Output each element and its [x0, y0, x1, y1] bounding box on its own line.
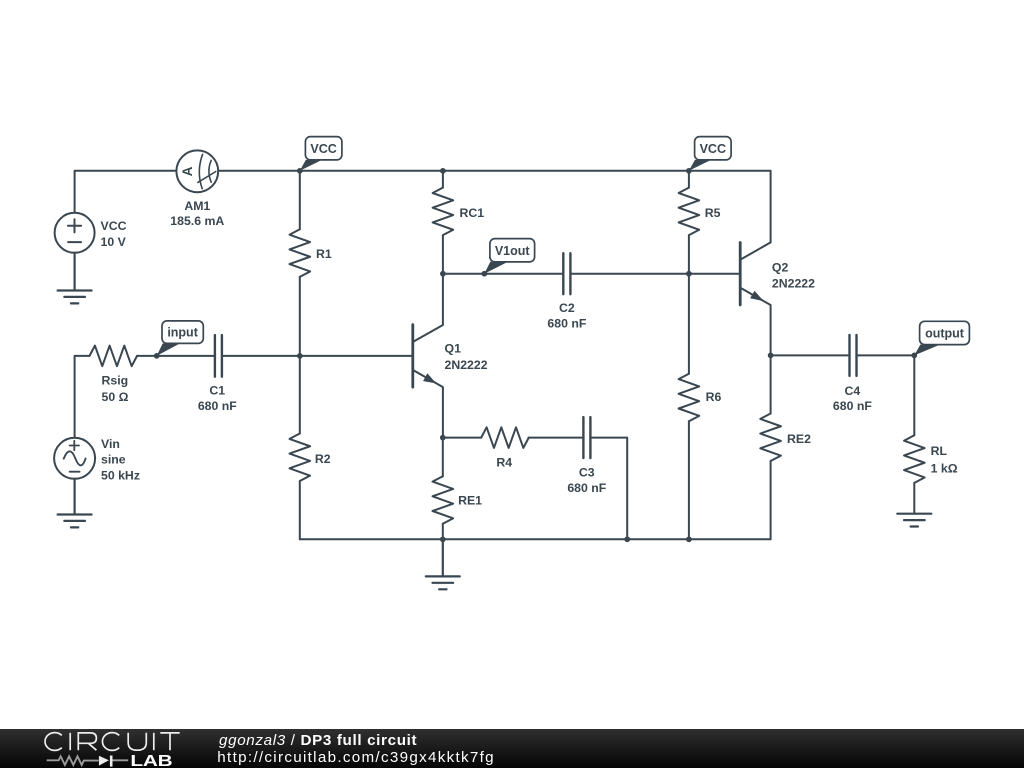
flag output	[914, 321, 969, 355]
svg-text:VCC: VCC	[101, 219, 127, 233]
svg-text:VCC: VCC	[310, 142, 336, 156]
svg-text:R6: R6	[706, 390, 722, 404]
svg-text:Vin: Vin	[101, 437, 120, 451]
svg-text:R5: R5	[705, 206, 721, 220]
resistor R5	[679, 171, 721, 274]
transistor Q1 2N2222	[413, 274, 488, 438]
junction node (Q1 emitter / R4 / RE1)	[440, 435, 446, 441]
svg-text:ggonzal3 / DP3 full circuit: ggonzal3 / DP3 full circuit	[219, 732, 417, 749]
capacitor C4 680 nF	[833, 335, 872, 413]
svg-text:680 nF: 680 nF	[833, 399, 872, 413]
svg-text:C2: C2	[559, 301, 575, 315]
junction node (output)	[911, 353, 917, 359]
svg-text:C1: C1	[209, 383, 225, 397]
voltage source Vin sine 50 kHz	[54, 437, 140, 483]
svg-text:A: A	[180, 166, 195, 176]
svg-text:RC1: RC1	[460, 206, 485, 220]
svg-text:185.6 mA: 185.6 mA	[170, 214, 224, 228]
wire: C1 to Q1 base	[223, 355, 413, 357]
resistor RC1	[433, 171, 485, 274]
wire: R4 to C3	[529, 437, 583, 439]
resistor R1	[290, 171, 332, 356]
wire: top rail from VCC source corner to ammeter	[75, 171, 300, 213]
wire: top rail RC1 node to right VCC node	[443, 170, 689, 172]
flag input	[157, 321, 204, 356]
junction node (bottom rail at C3 branch)	[624, 536, 630, 542]
footer url	[217, 749, 495, 766]
ground (below VCC source)	[58, 253, 92, 304]
voltage source VCC 10 V	[55, 213, 127, 253]
ground (below RL)	[897, 514, 931, 527]
CircuitLab logo: CIRCUIT wordmark	[45, 733, 180, 751]
svg-text:sine: sine	[101, 452, 126, 466]
svg-text:LAB: LAB	[130, 752, 172, 768]
junction node (Q2 emitter / output)	[768, 353, 774, 359]
svg-text:10 V: 10 V	[101, 235, 127, 249]
footer title: ggonzal3 / DP3 full circuit	[219, 732, 417, 749]
resistor R2	[290, 356, 331, 539]
svg-text:Q2: Q2	[772, 260, 789, 274]
svg-text:AM1: AM1	[184, 199, 210, 213]
svg-text:50 kHz: 50 kHz	[101, 468, 140, 482]
svg-text:RE1: RE1	[458, 493, 482, 507]
junction node (V1out flag)	[481, 271, 487, 277]
junction node (bottom rail at R6)	[686, 536, 692, 542]
svg-text:V1out: V1out	[495, 244, 531, 258]
CircuitLab logo: LAB wordmark	[130, 752, 172, 768]
svg-text:50 Ω: 50 Ω	[102, 390, 129, 404]
wire: bottom rail	[300, 538, 771, 540]
resistor Rsig 50 ohm	[90, 346, 138, 404]
wire: Rsig to C1	[137, 355, 214, 357]
svg-text:2N2222: 2N2222	[772, 276, 815, 290]
svg-text:RL: RL	[931, 444, 948, 458]
svg-text:680 nF: 680 nF	[547, 317, 586, 331]
wire: Q2 emitter node to C4	[771, 354, 849, 356]
CircuitLab logo: diode symbol	[99, 756, 128, 767]
junction node (bottom rail at RE1/ground)	[440, 536, 446, 542]
footer bar	[0, 729, 1024, 768]
resistor RL 1 kohm	[904, 355, 958, 513]
wire: top rail right VCC node to Q2 collector	[689, 171, 771, 243]
capacitor C3 680 nF	[567, 417, 606, 495]
svg-text:R2: R2	[315, 452, 331, 466]
svg-text:http://circuitlab.com/c39gx4kk: http://circuitlab.com/c39gx4kktk7fg	[217, 749, 495, 766]
svg-text:680 nF: 680 nF	[567, 481, 606, 495]
wire: V1out rail RC1 node to C2	[443, 273, 562, 275]
junction node (V1out rail at RC1/Q1 collector)	[440, 271, 446, 277]
transistor Q2 2N2222	[740, 242, 815, 355]
svg-text:input: input	[167, 326, 198, 340]
flag V1out	[484, 239, 534, 274]
wire: input left vertical and stub to Rsig	[75, 356, 90, 438]
svg-text:680 nF: 680 nF	[198, 399, 237, 413]
wire: C3 right down to bottom rail	[592, 438, 628, 540]
junction node (input flag)	[154, 353, 160, 359]
svg-text:1 kΩ: 1 kΩ	[931, 461, 958, 475]
svg-text:2N2222: 2N2222	[445, 358, 488, 372]
svg-text:VCC: VCC	[700, 142, 726, 156]
svg-text:Rsig: Rsig	[102, 373, 129, 387]
junction node (input rail at R1/R2)	[297, 353, 303, 359]
ground (center, below bottom rail)	[426, 539, 460, 589]
wire: C2 to Q2 base	[572, 273, 741, 275]
resistor RE1	[433, 438, 483, 540]
resistor RE2	[760, 355, 811, 539]
ammeter AM1	[170, 150, 224, 228]
resistor R4	[443, 427, 529, 469]
CircuitLab logo: resistor zigzag	[47, 756, 99, 765]
capacitor C2 680 nF	[547, 253, 586, 331]
svg-text:output: output	[925, 327, 965, 341]
svg-text:Q1: Q1	[445, 342, 462, 356]
svg-text:R4: R4	[496, 456, 512, 470]
capacitor C1 680 nF	[198, 335, 237, 413]
ground (below Vin)	[58, 479, 92, 528]
svg-text:R1: R1	[316, 247, 332, 261]
svg-text:C3: C3	[579, 466, 595, 480]
junction node (V1out rail at R5/R6)	[686, 271, 692, 277]
wire: top rail VCC node to RC1 node	[300, 170, 443, 172]
junction node (top rail at RC1)	[440, 168, 446, 174]
svg-text:RE2: RE2	[787, 432, 811, 446]
junction node (top rail at R1)	[297, 168, 303, 174]
svg-text:C4: C4	[845, 384, 861, 398]
junction node (top rail at R5)	[686, 168, 692, 174]
resistor R6	[679, 274, 722, 540]
wire: C4 to output node	[858, 354, 915, 356]
flag VCC (right)	[689, 137, 731, 171]
flag VCC (left)	[300, 137, 342, 171]
